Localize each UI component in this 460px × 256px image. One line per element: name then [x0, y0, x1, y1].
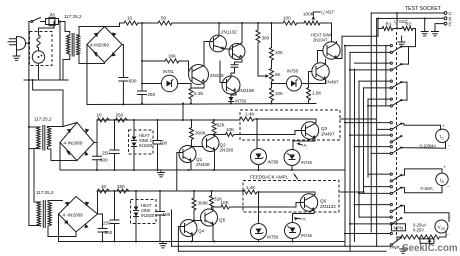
heat sink box 2 dashed [131, 200, 157, 224]
resistor R 10K chain3 [270, 82, 274, 104]
switch group 138.5 [390, 134, 392, 136]
svg-text:500: 500 [129, 78, 137, 83]
resistor R 300K row3 [192, 191, 196, 221]
SECTION: ROW2 SUPPLY [28, 103, 345, 203]
fuse F1 3A [46, 19, 59, 25]
resistor R 1.5K [307, 84, 311, 104]
wire bridge1 right to cap500 vertical [122, 45, 123, 105]
vertical cap100 row2 [157, 120, 159, 170]
svg-text:Q6: Q6 [320, 199, 327, 204]
SECTION: TEST SOCKET [371, 6, 452, 36]
svg-text:−: − [447, 233, 450, 238]
svg-text:2N2189: 2N2189 [238, 88, 255, 93]
bottom buses [172, 246, 391, 251]
svg-text:1.4K: 1.4K [245, 112, 255, 117]
svg-text:4-IN2069: 4-IN2069 [64, 140, 83, 145]
wire bus vertical 3 [354, 69, 356, 242]
svg-text:5K: 5K [275, 72, 282, 77]
resistor R 10K chain2 [270, 23, 274, 61]
wire C line [371, 12, 443, 14]
svg-text:117:25,2: 117:25,2 [64, 14, 82, 19]
svg-text:+: + [448, 216, 451, 221]
svg-text:IN746: IN746 [301, 160, 313, 165]
svg-text:117:25,2: 117:25,2 [36, 190, 54, 195]
wire bus vertical 5 [363, 88, 365, 192]
svg-text:2N338: 2N338 [220, 148, 234, 153]
zener D IN758 circled [287, 76, 302, 91]
rail row3 [97, 190, 243, 192]
transistor Q5 [201, 209, 218, 226]
SECTION: BUS BUNDLE [339, 45, 390, 252]
resistor R 250 row3 [117, 189, 129, 193]
vertical cap500 row2 [96, 143, 98, 171]
wire bridge3 to cap500 [98, 214, 103, 242]
wire 10K row3 to box2 [231, 206, 296, 208]
wire pot left [397, 237, 401, 241]
svg-text:300K: 300K [198, 201, 210, 206]
wire stub y45.6 [345, 45, 390, 47]
switch group 49 [390, 45, 392, 47]
node A arrow fb2 [294, 217, 299, 220]
svg-text:1,5K: 1,5K [312, 91, 322, 96]
T3 core [43, 201, 45, 228]
T2 secondary [48, 128, 51, 147]
ground (B branch) [421, 19, 428, 36]
T2 primary [29, 126, 40, 128]
SECTION: FEEDBACK BOX 2 [172, 181, 391, 252]
matrix right vertical links [401, 47, 408, 65]
wire stub y135.1 [350, 134, 390, 136]
wire 2N1047 emitter right [337, 29, 379, 59]
svg-text:CE: CE [441, 227, 446, 231]
capacitor C 500 [119, 78, 128, 82]
diode D IN758 [231, 95, 236, 104]
switch group 177.5 [390, 173, 392, 175]
zener D IN746 circled fb2 [285, 223, 301, 239]
wire 1.4K to Q6 collector [258, 192, 315, 195]
capacitor C 250 [138, 91, 147, 95]
wire bridge1 top to rail [105, 23, 125, 27]
svg-text:TEST SOCKET: TEST SOCKET [405, 6, 442, 12]
wire Q3 emitter to A node [293, 139, 315, 151]
switch group 84.5 [390, 80, 392, 82]
plug P1 [8, 37, 26, 51]
meter Ic [402, 124, 440, 130]
switch group 208 [390, 204, 392, 206]
wires Q4 Q5 couple [193, 221, 214, 242]
resistor R 5.3K [189, 84, 193, 104]
resistor R 300K row2 [190, 120, 194, 147]
svg-text:100: 100 [163, 212, 171, 217]
wire 1.4K down to zener fb2 [258, 192, 260, 224]
svg-text:2N338: 2N338 [210, 73, 224, 78]
svg-text:5.3K: 5.3K [194, 91, 204, 96]
transistor Q 2N1047 heat sink [323, 42, 340, 59]
resistor R 10K row3 [212, 205, 232, 209]
ground (plug) [13, 50, 20, 60]
node A arrow [297, 142, 301, 145]
svg-text:2N1132: 2N1132 [221, 30, 237, 35]
resistor R 1.4K [240, 117, 256, 121]
wire stub y217.1 [359, 216, 390, 218]
svg-text:E: E [449, 22, 452, 27]
svg-text:2N1132: 2N1132 [320, 204, 336, 209]
wire T2 area down x=34 [33, 149, 35, 202]
resistor R 10 [124, 21, 138, 25]
svg-text:1.4K: 1.4K [246, 185, 256, 190]
wire Q emitter to 5.3K [191, 84, 204, 89]
svg-text:NPN: NPN [394, 226, 404, 231]
svg-text:10: 10 [101, 184, 107, 189]
wire stub y105.9 [368, 105, 390, 107]
wire bus vertical 6 [367, 99, 369, 177]
resistor R 100 [283, 21, 297, 25]
wire zener to junction [302, 83, 309, 85]
T1 core [72, 34, 74, 57]
svg-text:50: 50 [161, 16, 167, 21]
svg-text:IN1820: IN1820 [139, 143, 153, 148]
resistor R 10K [165, 59, 179, 63]
transistor Q pair second [229, 44, 245, 60]
bridge rectifier B3 4-IN2069 [59, 197, 98, 233]
feedback return verticals [171, 210, 173, 246]
svg-text:Q5: Q5 [219, 218, 226, 223]
SECTION: WATERMARK [402, 243, 458, 254]
zener D IN751 [161, 75, 177, 91]
svg-text:100: 100 [283, 16, 291, 21]
wire 2N497 collector up [318, 51, 326, 63]
wire 10K to Q base [179, 61, 189, 71]
switch group 190 [390, 186, 392, 188]
zener D IN746 circled fb1 [284, 150, 300, 166]
diodes D IN1820 [133, 120, 135, 170]
svg-text:IN758: IN758 [267, 235, 279, 240]
wire R1R2 junction up [396, 13, 398, 29]
svg-text:+: + [444, 165, 447, 170]
wire Q6 emitter to A node fb2 [293, 211, 315, 223]
svg-text:+: + [442, 124, 445, 129]
capacitor small [231, 65, 238, 77]
ground rail row3 [59, 241, 346, 243]
bridge rectifier B1 4-IN2069 [87, 27, 122, 63]
ground bottom [400, 246, 407, 253]
svg-text:IN758: IN758 [287, 69, 299, 74]
wires Q1 Q2 couple [191, 147, 203, 148]
wire rail to right [172, 22, 283, 24]
T1 primary [65, 32, 70, 36]
wire stub y204.6 [355, 204, 391, 206]
resistor R 250 row2 [116, 118, 128, 122]
svg-text:300: 300 [262, 36, 270, 41]
svg-text:2N1047: 2N1047 [313, 38, 328, 43]
SECTION: SWITCH MATRIX [371, 13, 415, 246]
svg-text:300K: 300K [195, 131, 207, 136]
resistor R 50 [158, 21, 172, 25]
wire box1 out y119 [340, 118, 377, 120]
svg-text:500: 500 [105, 230, 113, 235]
feedback box2 dashed [243, 181, 339, 213]
wire stub y81.1 [359, 80, 390, 82]
resistor R 52K row2 [212, 120, 216, 136]
svg-text:IN751: IN751 [163, 69, 175, 74]
bridge rectifier B2 4-IN2069 [60, 123, 94, 161]
transistor Q 2N338 [189, 65, 209, 85]
ground rail row2 [60, 169, 345, 171]
wire left vertical B (x=28.9 plug down) [29, 22, 31, 226]
diodes D IN1820 row3 [135, 191, 137, 242]
wire bridge2 right to rail [94, 120, 97, 143]
SECTION: FEEDBACK BOX 1 [240, 110, 340, 180]
meter VCE [402, 206, 449, 222]
vertical cap250 row2 [114, 120, 116, 170]
wire 1.4K down to zener [256, 119, 258, 149]
transistor Q6 2N1132 [300, 194, 317, 211]
wire stub y146.6 [355, 146, 391, 148]
wire fuse branch down [59, 22, 61, 81]
vertical cap100 row3 [159, 191, 161, 239]
switch S1 [31, 21, 33, 23]
variac lamp circle [32, 51, 44, 63]
svg-text:250: 250 [116, 113, 124, 118]
resistor R 32K row3 [210, 191, 214, 209]
svg-text:250: 250 [102, 151, 110, 156]
capacitor C 500 row3 [98, 229, 107, 233]
transistor Q4 [180, 220, 197, 237]
svg-text:FEEDBACK AMPL: FEEDBACK AMPL [250, 175, 289, 180]
wires T1 secondary to bridge [77, 27, 105, 64]
resistor R 1.4K fb2 [243, 190, 258, 194]
zener D IN758 circled fb1 [251, 149, 267, 165]
svg-text:10: 10 [127, 16, 133, 21]
svg-text:0-1MA: 0-1MA [421, 186, 433, 191]
wire bus vertical 4 [358, 81, 360, 217]
wire 258 down + wiper arrow [257, 61, 259, 76]
T1 secondary [77, 35, 80, 54]
wire fuse to T1 [59, 22, 66, 32]
variac coil [37, 22, 54, 51]
transistor Q2 2N338 [202, 135, 219, 152]
T2 core [43, 126, 45, 151]
wire 10K to box1 [235, 134, 296, 136]
resistor R 10K row2 [214, 133, 235, 137]
svg-text:500: 500 [100, 158, 108, 163]
svg-text:250: 250 [103, 221, 111, 226]
resistor R 10 row3 [98, 189, 110, 193]
svg-text:IN746: IN746 [301, 233, 313, 238]
wire Q collector up [203, 56, 205, 63]
wire bus vertical 1 [344, 46, 346, 247]
svg-text:PNP: PNP [390, 245, 399, 250]
dashed gang line [396, 32, 398, 237]
svg-text:2N497: 2N497 [321, 132, 335, 137]
vertical x=183 connect [182, 104, 184, 121]
terminal E [444, 22, 447, 25]
transistor Q1 2N338 [179, 146, 196, 163]
switch group npn/pnp [390, 232, 392, 234]
wire Q1 emitter to rail [191, 153, 215, 171]
wire row y=61 [142, 60, 165, 62]
wire stub y186.6 [364, 186, 391, 188]
ground symbol row2 [158, 170, 165, 177]
wire left vertical x=385.9 [385, 46, 387, 106]
label NPN [392, 224, 406, 231]
variac dashed box [30, 32, 53, 66]
svg-text:117:25,2: 117:25,2 [34, 117, 52, 122]
svg-text:IN1820: IN1820 [141, 213, 155, 218]
pot R 100K [297, 21, 332, 25]
switch group 102.5 [390, 98, 392, 100]
ground symbol row3 [160, 239, 167, 248]
transistor Q 2N497 [312, 63, 329, 80]
svg-text:10K: 10K [275, 91, 284, 96]
bottom AC rail [24, 79, 68, 81]
wire bus vertical 2 [349, 52, 351, 251]
wire stub y223.9 [350, 223, 390, 225]
wire 2N1047 collector up to rail [331, 23, 333, 42]
feedback box1 dashed [240, 110, 340, 140]
wire stub y87.9 [364, 87, 391, 89]
transistor Q3 2N497 [301, 122, 318, 139]
wire box2 out y192 [339, 191, 364, 193]
svg-text:2N338: 2N338 [196, 162, 210, 167]
SECTION: ROW3 SUPPLY [29, 184, 345, 251]
vertical x=142 with cap 250 [141, 23, 143, 104]
wire to zener [272, 83, 287, 85]
wire bridge3 right to rail [97, 191, 99, 214]
pot VCE adjust [440, 231, 446, 237]
SECTION: ROW1 SUPPLY [87, 10, 378, 106]
SECTION: AC INPUT [8, 12, 122, 226]
switch group 220.5 [390, 216, 392, 218]
ground (matrix top) [398, 36, 405, 46]
wire E line [435, 23, 444, 25]
switch group 126 [390, 122, 392, 124]
wire left vertical x=371.2 [370, 13, 372, 232]
wire x378 down [377, 19, 379, 29]
T3 primary [37, 202, 40, 226]
svg-text:52K: 52K [217, 123, 226, 128]
ground (E branch) [432, 24, 439, 36]
zener D IN758 circled fb2 [251, 224, 267, 240]
svg-text:−: − [448, 144, 451, 149]
vertical cap250 row3 [114, 191, 116, 242]
resistor R 10 row2 [98, 118, 110, 122]
terminal B [444, 17, 447, 20]
wire B line [377, 17, 444, 19]
T3 secondary [48, 202, 51, 226]
switch group 150 [390, 146, 392, 148]
wire pair emitter down and bend [235, 62, 243, 64]
svg-text:SeekIC.com: SeekIC.com [402, 243, 458, 254]
meter IB [402, 169, 442, 175]
terminal C [444, 12, 447, 15]
wire stub y122.6 [345, 122, 390, 124]
svg-text:2N497: 2N497 [325, 80, 339, 85]
wire stub y52.4 [350, 51, 390, 53]
svg-text:10K: 10K [221, 200, 230, 205]
svg-text:4-IN2069: 4-IN2069 [90, 43, 109, 48]
wire left vertical x=376.6 [376, 19, 378, 247]
svg-text:IN758: IN758 [235, 99, 247, 104]
svg-text:3A: 3A [50, 12, 57, 17]
transistor Q 2N1132 [210, 35, 227, 52]
transistor Q 2N2189 [222, 76, 240, 94]
SECTION: METERS [390, 124, 451, 254]
svg-text:10K: 10K [226, 127, 235, 132]
svg-text:4 -IN2069: 4 -IN2069 [63, 213, 84, 218]
svg-text:Q3: Q3 [321, 126, 328, 131]
wire 2N497 emitter down [309, 82, 326, 84]
svg-text:Q4: Q4 [198, 229, 205, 234]
wire staircase to bridge2 [33, 80, 63, 127]
rail row2 [97, 119, 240, 121]
svg-text:250: 250 [117, 184, 125, 189]
svg-text:"ADJ": "ADJ" [324, 10, 335, 15]
wire plug to junction [26, 42, 29, 44]
wire [138, 22, 158, 24]
svg-text:10K: 10K [275, 50, 284, 55]
svg-text:0-25V: 0-25V [413, 227, 424, 232]
wire stub y174.1 [368, 173, 390, 175]
svg-text:250: 250 [148, 92, 156, 97]
ground rail row1 [87, 104, 316, 105]
svg-text:B: B [449, 16, 452, 21]
svg-text:10: 10 [97, 113, 103, 118]
wire junction up to 2N497 base [309, 72, 313, 84]
wire 1.4K to Q3 collector [256, 119, 316, 123]
switch group 66.5 [390, 62, 392, 64]
resistor R 5K pot [270, 61, 274, 82]
svg-text:−: − [447, 185, 450, 190]
wire stub y69.9 [350, 69, 390, 71]
svg-text:10K: 10K [168, 54, 177, 59]
svg-text:IN758: IN758 [268, 160, 280, 165]
wire stub y63.1 [355, 62, 391, 64]
heat sink box 1 dashed [129, 130, 154, 154]
wire stub y99.1 [368, 98, 390, 100]
svg-text:0-100MA: 0-100MA [420, 143, 437, 148]
svg-text:100: 100 [160, 141, 168, 146]
wire bridge1 left vertex down [86, 45, 88, 105]
resistor R 300 chain [256, 23, 260, 61]
